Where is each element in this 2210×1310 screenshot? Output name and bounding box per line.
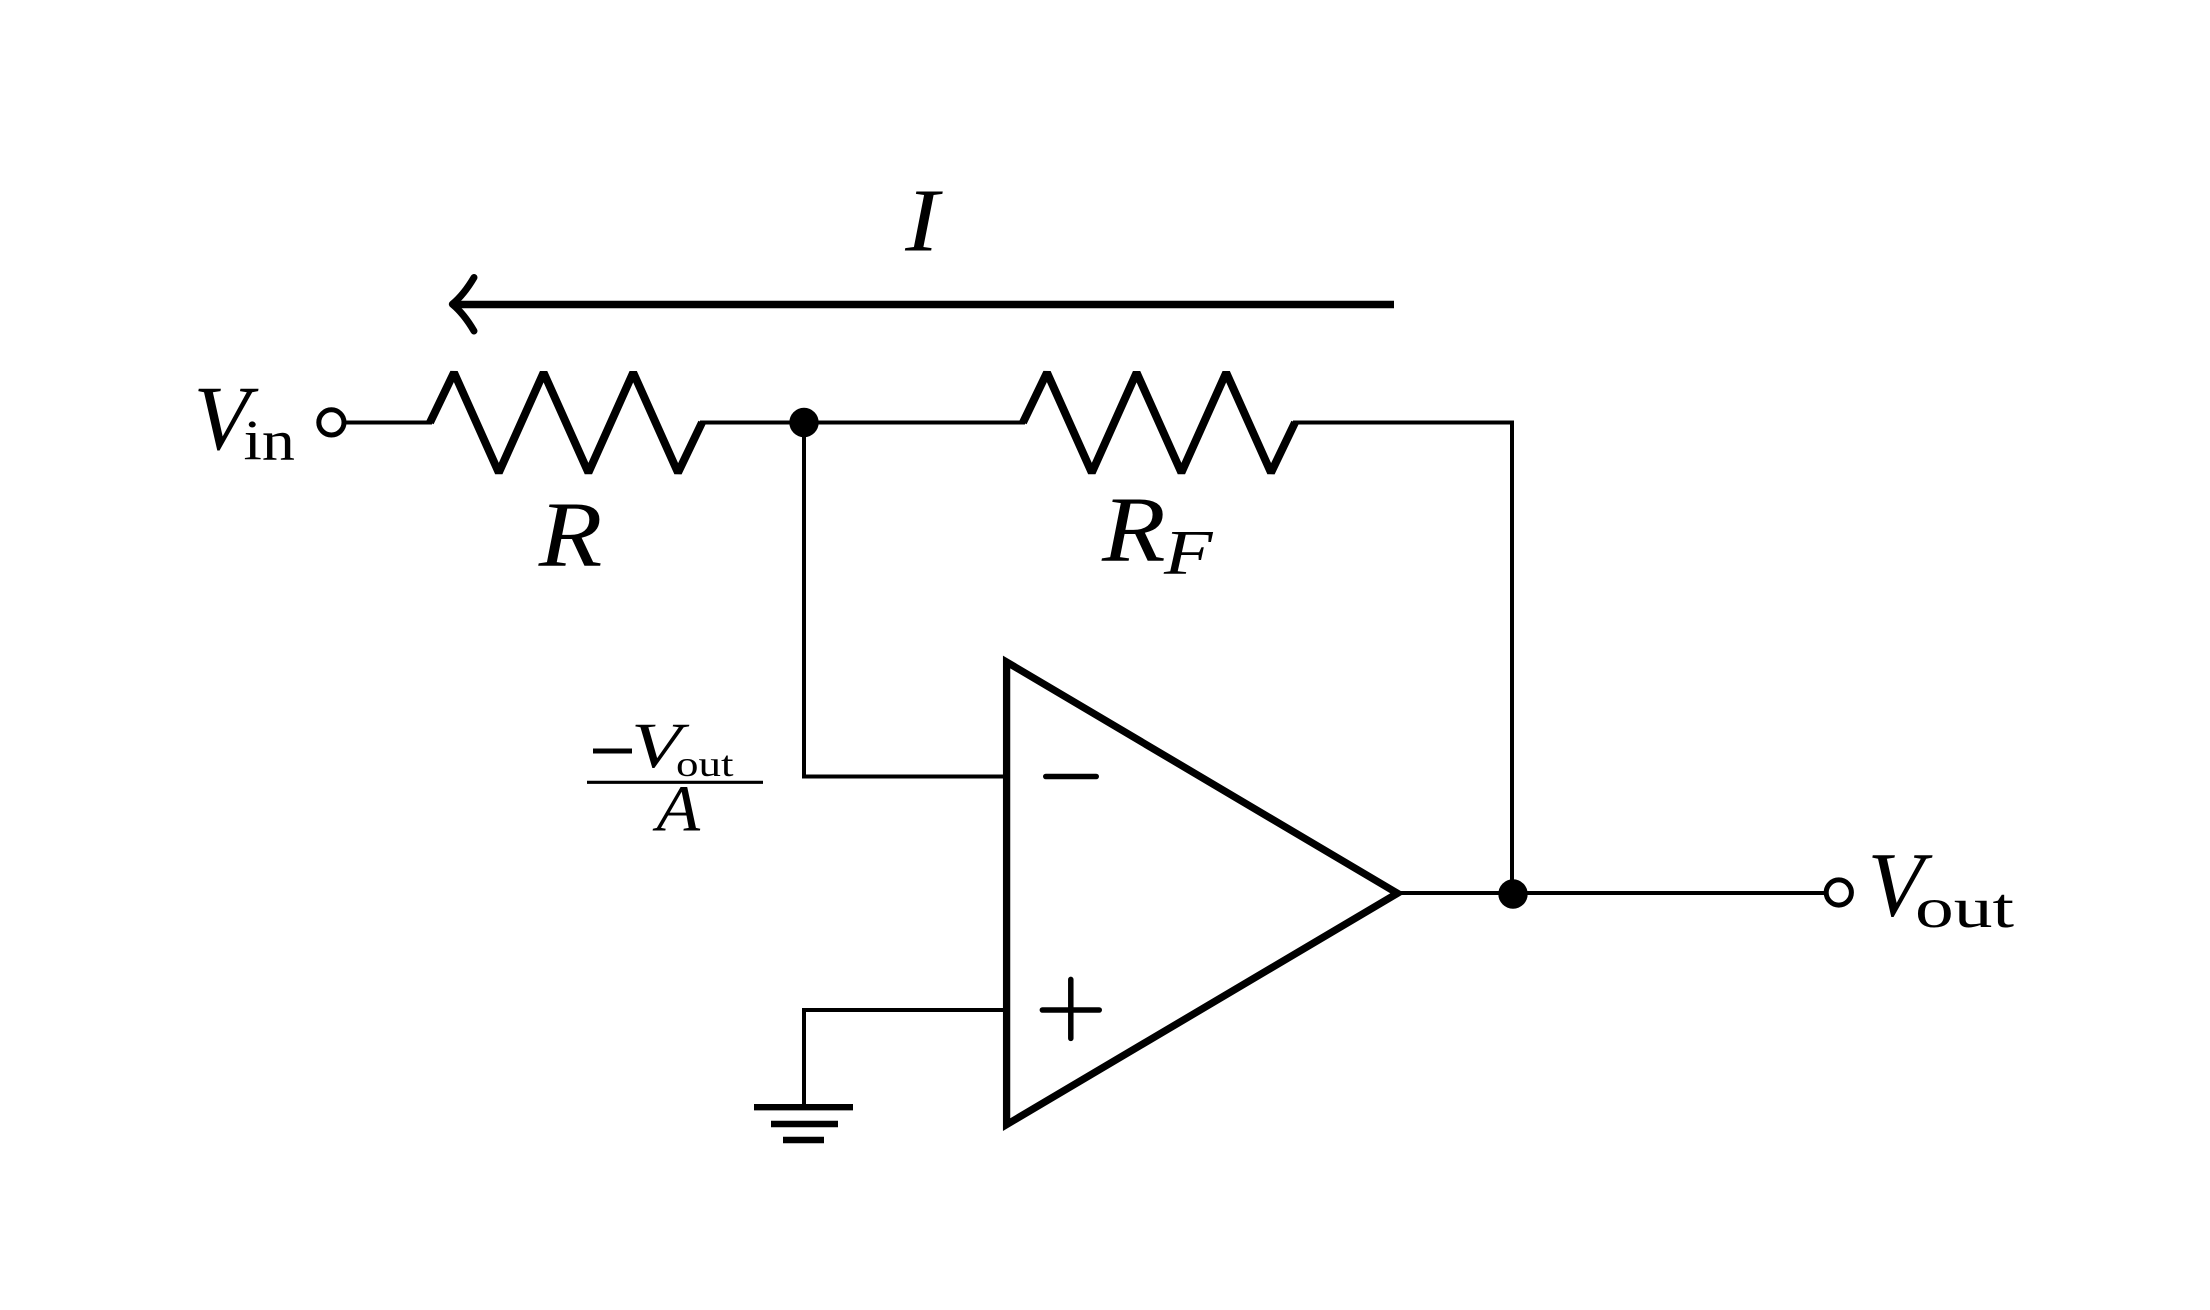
wire non-inverting input <box>804 1008 1007 1012</box>
current arrow I head <box>452 278 474 332</box>
wire op-amp output <box>1398 891 1825 895</box>
current arrow I line <box>452 301 1394 309</box>
wire R to node <box>700 421 1025 425</box>
op-amp plus symbol <box>1042 979 1099 1038</box>
resistor R <box>430 373 702 473</box>
op-amp U1 triangle <box>1007 662 1398 1125</box>
svg-text:R: R <box>538 484 603 587</box>
wire down to ground <box>802 1008 806 1107</box>
output junction dot <box>1498 879 1527 908</box>
svg-text:F: F <box>1163 517 1214 588</box>
ground <box>754 1107 853 1140</box>
wire node down to inverting input <box>802 423 806 777</box>
terminal Vin (open circle) <box>319 410 344 435</box>
wire to inverting input <box>802 775 1007 779</box>
svg-text:R: R <box>1101 479 1166 582</box>
wire RF to feedback corner <box>1293 421 1512 425</box>
label -Vout/A fraction <box>587 710 763 845</box>
wire Vin to R <box>346 421 432 425</box>
svg-text:in: in <box>244 410 295 473</box>
svg-text:I: I <box>904 170 943 270</box>
wire feedback vertical <box>1510 421 1514 895</box>
op-amp minus symbol <box>1046 774 1097 780</box>
svg-text:out: out <box>1915 876 2014 940</box>
node junction dot <box>789 408 818 437</box>
svg-text:A: A <box>652 772 701 845</box>
terminal Vout (open circle) <box>1826 880 1851 905</box>
resistor RF <box>1023 373 1295 473</box>
